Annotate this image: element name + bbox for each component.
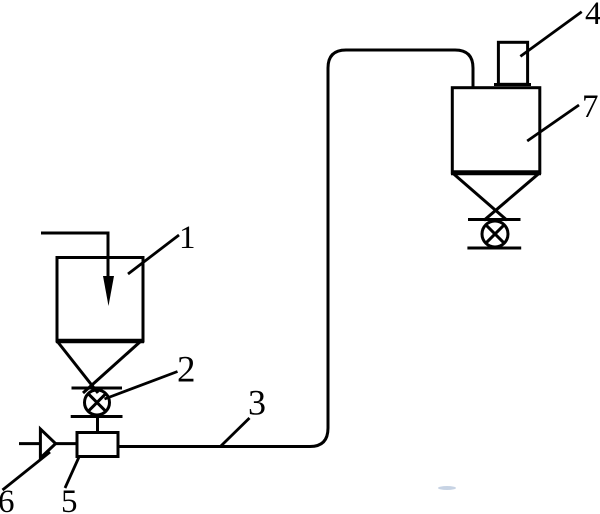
svg-text:7: 7 xyxy=(582,89,599,125)
svg-text:3: 3 xyxy=(248,383,266,423)
svg-text:1: 1 xyxy=(179,220,196,256)
svg-text:2: 2 xyxy=(177,350,196,391)
svg-text:5: 5 xyxy=(61,484,78,514)
svg-text:6: 6 xyxy=(0,484,15,514)
svg-text:4: 4 xyxy=(585,0,600,32)
